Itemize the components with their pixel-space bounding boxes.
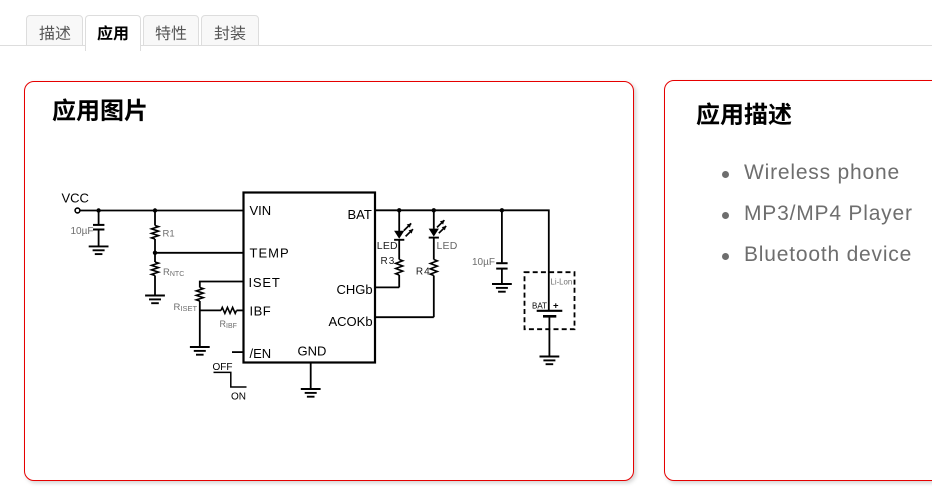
junction R1 top node	[153, 208, 157, 212]
svg-text:BAT: BAT	[532, 301, 547, 310]
wire BAT rail	[375, 210, 549, 310]
ground (below C1)	[89, 246, 109, 254]
svg-text:GND: GND	[298, 344, 327, 359]
svg-text:IBF: IBF	[250, 304, 272, 319]
ground (below RISET)	[190, 347, 210, 355]
svg-text:R4: R4	[416, 267, 431, 278]
switch waveform OFF/ON on /EN	[213, 362, 247, 403]
svg-text:ON: ON	[231, 392, 246, 403]
junction LED2 node	[432, 208, 436, 212]
LED D2 power indicator	[429, 210, 447, 259]
wire /EN stub	[232, 351, 245, 353]
svg-text:10µF: 10µF	[71, 226, 94, 237]
junction node TEMP divider	[153, 251, 157, 255]
LED D1 charge indicator	[394, 210, 413, 259]
svg-text:RIBF: RIBF	[220, 319, 237, 330]
svg-text:CHGb: CHGb	[337, 282, 373, 297]
svg-text:R1: R1	[163, 229, 175, 240]
junction output cap node	[500, 208, 504, 212]
junction input cap node	[96, 208, 100, 212]
svg-text:VCC: VCC	[62, 191, 89, 206]
svg-text:OFF: OFF	[213, 362, 233, 373]
resistor R4	[430, 260, 437, 318]
wire R4 to ACOKb pin	[376, 316, 434, 318]
wire R3 to CHGb pin	[376, 286, 400, 288]
svg-text:RNTC: RNTC	[163, 267, 184, 278]
battery BT1 Li-Ion pack dashed outline	[525, 272, 575, 329]
wire ISET pin to RISET	[200, 282, 245, 288]
node VCC (input supply terminal)	[62, 191, 89, 213]
capacitor C2 10uF output	[496, 210, 507, 284]
wire divider node to TEMP pin	[155, 252, 245, 254]
wire battery to ground	[548, 316, 550, 356]
resistor RIBF	[221, 307, 245, 313]
ground (battery negative)	[540, 357, 560, 365]
label BAT+	[532, 301, 559, 312]
wire VCC to VIN pin	[80, 210, 245, 212]
ground (below RNTC)	[145, 296, 165, 304]
resistor RNTC thermistor	[152, 253, 159, 296]
svg-text:VIN: VIN	[250, 203, 272, 218]
capacitor C1 10uF input	[93, 211, 104, 247]
svg-text:LED: LED	[377, 240, 398, 252]
svg-text:ACOKb: ACOKb	[329, 314, 373, 329]
resistor R1	[152, 211, 159, 253]
svg-text:/EN: /EN	[250, 346, 272, 361]
ground (below C2)	[492, 284, 512, 292]
svg-text:Li-Lon: Li-Lon	[551, 278, 573, 287]
svg-text:R3: R3	[381, 256, 396, 267]
svg-text:10µF: 10µF	[472, 257, 495, 268]
resistor R3	[396, 260, 403, 288]
junction LED1 node	[397, 208, 401, 212]
svg-text:RISET: RISET	[174, 302, 198, 313]
svg-text:BAT: BAT	[348, 207, 372, 222]
IC U1 battery charger body	[244, 193, 376, 363]
svg-text:LED: LED	[437, 240, 458, 252]
battery cell plates	[537, 311, 563, 317]
resistor RISET	[196, 288, 203, 348]
ground (GND pin)	[301, 363, 321, 397]
wire RISET node to RIBF	[200, 309, 221, 311]
svg-text:TEMP: TEMP	[250, 246, 290, 261]
svg-text:ISET: ISET	[249, 275, 281, 290]
